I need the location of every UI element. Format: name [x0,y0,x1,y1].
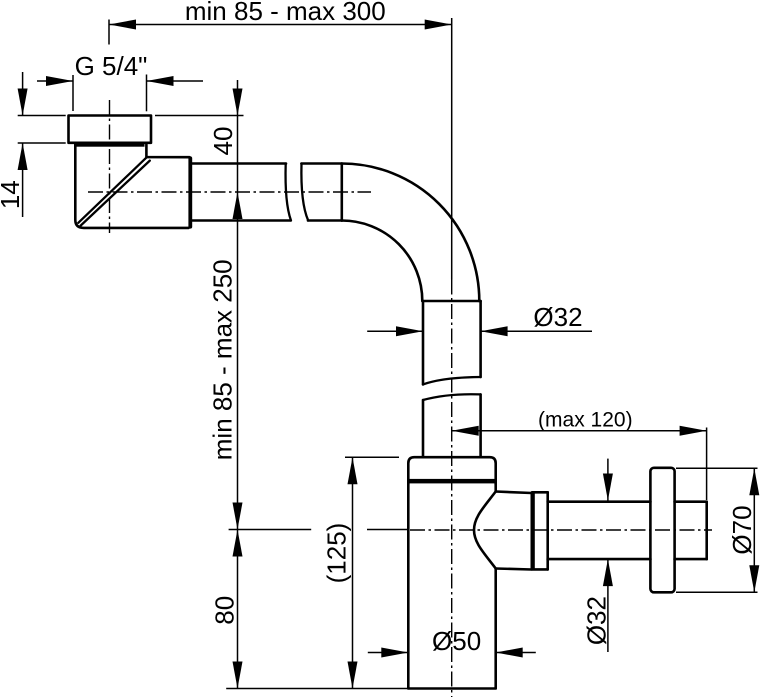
svg-text:40: 40 [208,127,238,156]
svg-text:14: 14 [0,180,25,209]
svg-text:80: 80 [210,596,240,625]
svg-text:(125): (125) [321,523,351,584]
svg-text:(max 120): (max 120) [538,408,633,431]
svg-text:Ø50: Ø50 [432,626,481,656]
svg-text:Ø70: Ø70 [727,505,757,554]
svg-text:G 5/4": G 5/4" [75,51,148,81]
svg-text:min 85 - max 250: min 85 - max 250 [208,259,238,460]
svg-text:min 85 - max 300: min 85 - max 300 [185,0,386,26]
svg-text:Ø32: Ø32 [533,302,582,332]
svg-text:Ø32: Ø32 [582,596,612,645]
